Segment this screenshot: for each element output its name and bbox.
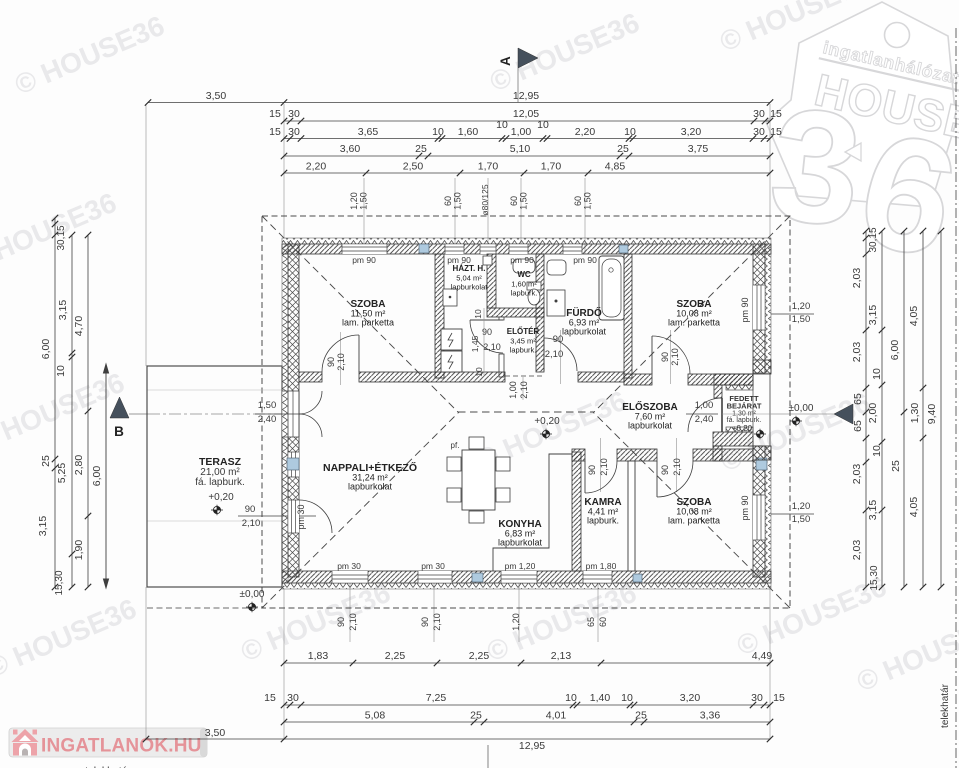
windows in bottom wall bbox=[332, 571, 368, 583]
svg-text:HÁZT. H.: HÁZT. H. bbox=[453, 264, 486, 273]
svg-text:2,40: 2,40 bbox=[258, 414, 277, 425]
svg-text:60: 60 bbox=[443, 196, 453, 206]
svg-text:10: 10 bbox=[432, 126, 444, 138]
svg-text:10: 10 bbox=[537, 119, 549, 131]
svg-text:4,70: 4,70 bbox=[73, 316, 85, 337]
svg-text:30: 30 bbox=[288, 108, 300, 120]
svg-text:2,13: 2,13 bbox=[551, 650, 572, 662]
axis marker right bbox=[834, 404, 853, 424]
svg-text:1,50: 1,50 bbox=[583, 192, 593, 210]
svg-text:pm 90: pm 90 bbox=[740, 495, 750, 520]
svg-text:2,25: 2,25 bbox=[469, 650, 490, 662]
svg-text:pm 90: pm 90 bbox=[740, 297, 750, 322]
svg-text:3,20: 3,20 bbox=[680, 692, 701, 704]
left dimension chains bbox=[54, 218, 56, 587]
svg-text:3,45 m²: 3,45 m² bbox=[510, 337, 536, 346]
svg-text:ø80/125: ø80/125 bbox=[480, 184, 490, 215]
svg-text:WC: WC bbox=[517, 270, 531, 279]
svg-text:lam. parketta: lam. parketta bbox=[342, 318, 394, 328]
svg-text:2,50: 2,50 bbox=[403, 161, 424, 173]
svg-text:pm 30: pm 30 bbox=[296, 504, 306, 529]
svg-text:25: 25 bbox=[635, 710, 647, 722]
svg-text:10: 10 bbox=[621, 692, 633, 704]
svg-text:15,30: 15,30 bbox=[869, 565, 880, 590]
svg-text:+0,20: +0,20 bbox=[208, 492, 234, 503]
svg-text:12,95: 12,95 bbox=[519, 740, 545, 752]
insulation strips bbox=[282, 238, 771, 244]
svg-text:2,03: 2,03 bbox=[851, 268, 863, 289]
svg-text:65: 65 bbox=[586, 617, 596, 627]
svg-text:lapburk.: lapburk. bbox=[587, 516, 619, 526]
HOUSE36 logo (top right) bbox=[766, 2, 956, 207]
svg-text:15: 15 bbox=[770, 108, 782, 120]
svg-text:2,10: 2,10 bbox=[483, 342, 501, 352]
hazt.h fixtures bbox=[483, 256, 492, 265]
svg-text:15: 15 bbox=[773, 692, 785, 704]
svg-text:pm 1,20: pm 1,20 bbox=[505, 561, 536, 571]
svg-text:4,01: 4,01 bbox=[546, 710, 567, 722]
furdo cabinet bbox=[547, 290, 565, 316]
svg-text:4,85: 4,85 bbox=[605, 161, 626, 173]
svg-text:2,10: 2,10 bbox=[599, 458, 609, 476]
svg-text:±0,00: ±0,00 bbox=[789, 403, 814, 414]
svg-text:2,10: 2,10 bbox=[519, 381, 529, 399]
INGATLANOK.HU logo bbox=[9, 728, 207, 757]
right dimension chains bbox=[865, 231, 867, 587]
svg-text:25: 25 bbox=[890, 460, 902, 472]
svg-text:2,10: 2,10 bbox=[672, 458, 682, 476]
svg-text:2,03: 2,03 bbox=[851, 540, 863, 561]
windows in right wall bbox=[753, 285, 765, 330]
svg-text:2,40: 2,40 bbox=[695, 414, 714, 425]
svg-text:90: 90 bbox=[420, 617, 430, 627]
svg-text:fá. lapburk.: fá. lapburk. bbox=[195, 477, 244, 488]
outer walls: hatch bands bbox=[282, 244, 771, 254]
svg-text:1,70: 1,70 bbox=[541, 161, 562, 173]
svg-text:30,15: 30,15 bbox=[56, 225, 67, 250]
svg-text:1,00: 1,00 bbox=[511, 126, 532, 138]
svg-text:6,00: 6,00 bbox=[40, 339, 52, 360]
svg-text:pm 30: pm 30 bbox=[421, 561, 445, 571]
svg-text:3,65: 3,65 bbox=[358, 126, 379, 138]
svg-text:4,05: 4,05 bbox=[908, 306, 920, 327]
svg-text:2,10: 2,10 bbox=[348, 613, 358, 631]
svg-text:25: 25 bbox=[617, 143, 629, 155]
terasz light lines bbox=[147, 389, 282, 391]
wc sink bbox=[513, 259, 535, 273]
svg-text:30: 30 bbox=[753, 126, 765, 138]
svg-text:3,36: 3,36 bbox=[700, 710, 721, 722]
svg-text:90: 90 bbox=[326, 357, 336, 367]
svg-text:lapburk.: lapburk. bbox=[510, 346, 537, 355]
svg-text:ELŐTÉR: ELŐTÉR bbox=[507, 327, 540, 336]
svg-text:2,10: 2,10 bbox=[432, 613, 442, 631]
axis marker B (left) bbox=[110, 397, 129, 418]
svg-text:3,60: 3,60 bbox=[340, 143, 361, 155]
svg-text:3,75: 3,75 bbox=[688, 143, 709, 155]
svg-text:10: 10 bbox=[871, 368, 883, 380]
property boundary (right) bbox=[955, 28, 957, 768]
roof hip/ridge dashed lines bbox=[262, 216, 790, 608]
svg-text:30: 30 bbox=[753, 108, 765, 120]
svg-text:1,00: 1,00 bbox=[508, 381, 518, 399]
svg-text:lapburkolat: lapburkolat bbox=[628, 421, 673, 431]
svg-text:A: A bbox=[498, 56, 513, 66]
svg-text:15: 15 bbox=[269, 126, 281, 138]
interior walls bbox=[435, 254, 444, 378]
svg-text:12,95: 12,95 bbox=[513, 90, 539, 102]
svg-text:10: 10 bbox=[565, 692, 577, 704]
svg-text:12,05: 12,05 bbox=[513, 108, 539, 120]
svg-text:15: 15 bbox=[269, 108, 281, 120]
svg-text:2,80: 2,80 bbox=[73, 455, 85, 476]
fold mark bbox=[487, 745, 489, 768]
svg-text:1,20: 1,20 bbox=[792, 301, 811, 312]
furdo sink bbox=[547, 260, 566, 275]
svg-text:2,03: 2,03 bbox=[851, 342, 863, 363]
svg-text:±0,00: ±0,00 bbox=[240, 589, 265, 600]
svg-text:30: 30 bbox=[751, 692, 763, 704]
svg-text:2,20: 2,20 bbox=[575, 126, 596, 138]
svg-text:9,40: 9,40 bbox=[926, 404, 938, 425]
svg-text:1,20: 1,20 bbox=[349, 192, 359, 210]
doors bbox=[322, 335, 359, 372]
svg-text:1,50: 1,50 bbox=[258, 400, 277, 411]
svg-text:10: 10 bbox=[871, 445, 883, 457]
svg-text:3,50: 3,50 bbox=[205, 727, 226, 739]
svg-text:1,90: 1,90 bbox=[73, 540, 85, 561]
svg-text:1,40: 1,40 bbox=[590, 692, 611, 704]
svg-text:25: 25 bbox=[40, 455, 52, 467]
svg-text:90: 90 bbox=[553, 334, 564, 345]
svg-text:90: 90 bbox=[482, 327, 492, 337]
svg-text:1,50: 1,50 bbox=[519, 192, 529, 210]
svg-text:1,50: 1,50 bbox=[453, 192, 463, 210]
svg-text:15: 15 bbox=[264, 692, 276, 704]
svg-text:60: 60 bbox=[509, 196, 519, 206]
svg-text:1,50: 1,50 bbox=[792, 514, 811, 525]
svg-text:2,25: 2,25 bbox=[385, 650, 406, 662]
svg-text:lapburkolat: lapburkolat bbox=[348, 482, 393, 492]
svg-text:pm 90: pm 90 bbox=[447, 255, 471, 265]
svg-text:6,00: 6,00 bbox=[91, 466, 103, 487]
svg-text:lam. parketta: lam. parketta bbox=[668, 516, 720, 526]
svg-text:pm 1,80: pm 1,80 bbox=[586, 561, 617, 571]
axis marker A (top) bbox=[518, 48, 538, 68]
svg-text:2,20: 2,20 bbox=[306, 161, 327, 173]
svg-text:telekhatár: telekhatár bbox=[940, 683, 951, 728]
svg-text:+0,20: +0,20 bbox=[732, 424, 753, 433]
leader lines bbox=[145, 104, 147, 366]
svg-text:lapburkolat: lapburkolat bbox=[498, 538, 543, 548]
openings in left wall bbox=[282, 391, 299, 437]
svg-text:lapburkolat: lapburkolat bbox=[451, 283, 489, 292]
svg-text:90: 90 bbox=[587, 465, 597, 475]
bathtub bbox=[599, 256, 624, 320]
svg-text:4,49: 4,49 bbox=[752, 650, 773, 662]
svg-text:lam. parketta: lam. parketta bbox=[668, 318, 720, 328]
windows in top wall bbox=[342, 244, 387, 254]
svg-text:pf.: pf. bbox=[451, 441, 460, 450]
svg-text:10: 10 bbox=[55, 365, 67, 377]
svg-text:1,50: 1,50 bbox=[792, 314, 811, 325]
terasz outline bbox=[147, 366, 282, 587]
svg-text:1,60: 1,60 bbox=[458, 126, 479, 138]
svg-text:1,00: 1,00 bbox=[695, 400, 714, 411]
eaves (dashed rectangle) bbox=[262, 216, 790, 608]
svg-text:2,03: 2,03 bbox=[851, 464, 863, 485]
svg-text:2,10: 2,10 bbox=[545, 349, 564, 360]
svg-text:pm 90: pm 90 bbox=[352, 255, 376, 265]
svg-text:3,15: 3,15 bbox=[867, 500, 879, 521]
svg-text:1,83: 1,83 bbox=[308, 650, 329, 662]
svg-text:7,25: 7,25 bbox=[426, 692, 447, 704]
svg-text:10: 10 bbox=[496, 119, 508, 131]
svg-text:10: 10 bbox=[474, 367, 484, 377]
svg-text:1,30: 1,30 bbox=[909, 403, 921, 424]
svg-text:5,10: 5,10 bbox=[510, 143, 531, 155]
svg-text:65: 65 bbox=[852, 420, 864, 432]
svg-text:5,25: 5,25 bbox=[56, 463, 68, 484]
blue wall markers bbox=[419, 244, 429, 253]
svg-text:lapburk.: lapburk. bbox=[511, 289, 538, 298]
svg-text:lapburkolat: lapburkolat bbox=[562, 327, 607, 337]
svg-text:4,05: 4,05 bbox=[908, 497, 920, 518]
svg-text:10: 10 bbox=[473, 309, 483, 319]
svg-text:1,20: 1,20 bbox=[792, 501, 811, 512]
svg-text:30,15: 30,15 bbox=[868, 227, 879, 252]
svg-text:2,00: 2,00 bbox=[867, 403, 879, 424]
svg-text:+0,20: +0,20 bbox=[534, 416, 560, 427]
dining table bbox=[462, 450, 495, 510]
svg-text:10: 10 bbox=[624, 126, 636, 138]
svg-text:BEJÁRAT: BEJÁRAT bbox=[727, 402, 762, 411]
svg-text:1,70: 1,70 bbox=[478, 161, 499, 173]
svg-text:fá. lapburk.: fá. lapburk. bbox=[727, 417, 762, 424]
svg-text:pm 30: pm 30 bbox=[337, 561, 361, 571]
svg-text:5,08: 5,08 bbox=[365, 710, 386, 722]
svg-text:3,15: 3,15 bbox=[57, 300, 69, 321]
svg-text:6,00: 6,00 bbox=[889, 340, 901, 361]
svg-text:2,10: 2,10 bbox=[336, 353, 346, 371]
svg-text:15: 15 bbox=[770, 126, 782, 138]
svg-text:3,50: 3,50 bbox=[206, 90, 227, 102]
svg-text:90: 90 bbox=[660, 465, 670, 475]
svg-text:3,20: 3,20 bbox=[681, 126, 702, 138]
svg-text:15,30: 15,30 bbox=[54, 570, 65, 595]
svg-text:60: 60 bbox=[598, 617, 608, 627]
svg-text:pm 90: pm 90 bbox=[573, 255, 597, 265]
svg-text:30: 30 bbox=[288, 126, 300, 138]
svg-text:1,60 m²: 1,60 m² bbox=[511, 280, 537, 289]
svg-text:3,15: 3,15 bbox=[867, 305, 879, 326]
svg-text:65: 65 bbox=[852, 393, 864, 405]
konyha open boundary bbox=[493, 454, 572, 571]
svg-text:1,50: 1,50 bbox=[359, 192, 369, 210]
svg-text:1,45: 1,45 bbox=[470, 335, 480, 352]
wc toilet bbox=[527, 282, 541, 290]
svg-text:2,10: 2,10 bbox=[670, 348, 680, 366]
svg-text:5,04 m²: 5,04 m² bbox=[456, 274, 482, 283]
svg-text:pm 90: pm 90 bbox=[510, 255, 534, 265]
svg-text:3,15: 3,15 bbox=[37, 516, 49, 537]
svg-text:60: 60 bbox=[573, 196, 583, 206]
svg-text:90: 90 bbox=[336, 617, 346, 627]
top dimension chains bbox=[148, 102, 770, 104]
svg-text:30: 30 bbox=[287, 692, 299, 704]
svg-text:2,10: 2,10 bbox=[242, 518, 261, 529]
svg-text:1,20: 1,20 bbox=[511, 613, 521, 631]
svg-text:B: B bbox=[114, 424, 124, 439]
svg-text:25: 25 bbox=[470, 710, 482, 722]
svg-text:90: 90 bbox=[660, 352, 670, 362]
svg-text:90: 90 bbox=[245, 504, 256, 515]
svg-text:25: 25 bbox=[415, 143, 427, 155]
